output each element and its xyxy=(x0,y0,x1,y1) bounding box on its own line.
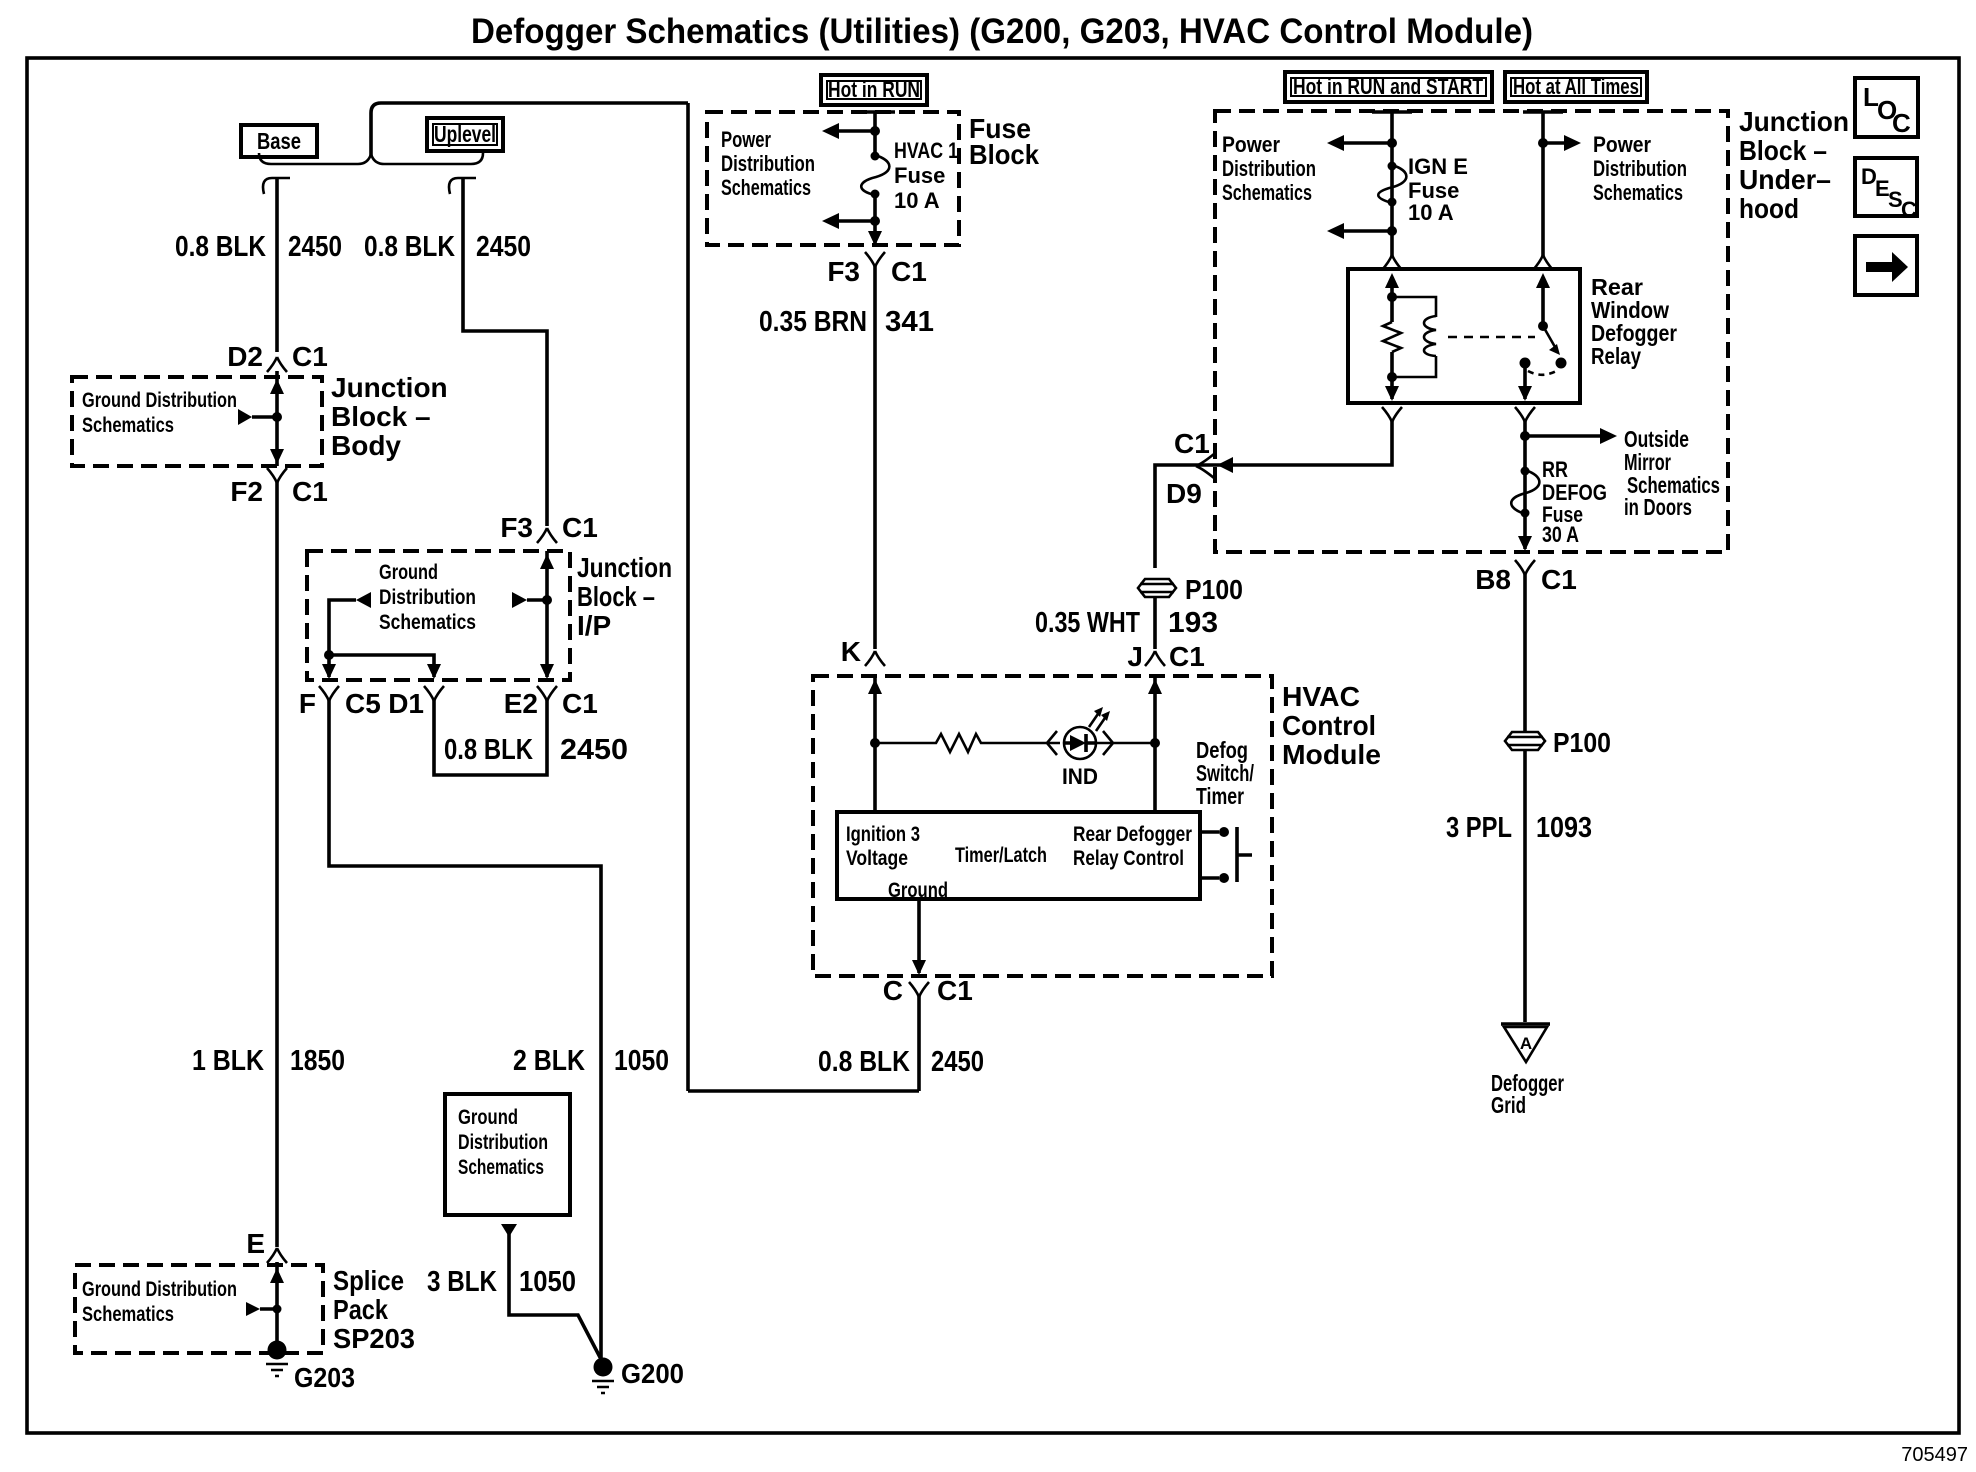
svg-text:Ground: Ground xyxy=(888,879,948,902)
connector F2 C1 xyxy=(230,468,327,507)
svg-text:Body: Body xyxy=(331,430,401,461)
Hot in RUN and START flag box xyxy=(1285,72,1492,102)
arrow down (fuse block exit) xyxy=(868,231,882,246)
svg-text:C5: C5 xyxy=(345,688,381,719)
svg-text:F3: F3 xyxy=(827,256,860,287)
connector E2 C1 xyxy=(504,686,598,719)
wire K into module xyxy=(873,676,877,812)
svg-text:Distribution: Distribution xyxy=(1593,156,1687,181)
svg-text:Grid: Grid xyxy=(1491,1092,1526,1118)
svg-text:IND: IND xyxy=(1062,764,1098,789)
relay switch pivot xyxy=(1538,321,1548,331)
svg-text:10 A: 10 A xyxy=(1408,200,1454,225)
svg-text:193: 193 xyxy=(1168,607,1218,639)
relay coil branch xyxy=(1392,297,1436,317)
svg-text:Ground Distribution: Ground Distribution xyxy=(82,1278,237,1301)
Base lead hook xyxy=(263,178,290,194)
Junction Block - Body dashed box xyxy=(72,377,322,466)
wire LED to J branch xyxy=(1096,742,1155,745)
wire ground exit xyxy=(917,899,921,973)
svg-text:Junction: Junction xyxy=(577,552,672,583)
svg-text:J: J xyxy=(1127,641,1143,672)
svg-text:Timer/Latch: Timer/Latch xyxy=(955,844,1047,867)
connector F C5 xyxy=(299,686,381,719)
svg-text:K: K xyxy=(841,636,861,667)
svg-text:Power: Power xyxy=(1593,132,1651,157)
wire top horizontal run to right xyxy=(381,101,688,105)
arrow left (lower power dist) xyxy=(1327,223,1344,239)
svg-text:1850: 1850 xyxy=(290,1045,345,1077)
Fuse Block dashed box xyxy=(707,112,959,245)
svg-text:P100: P100 xyxy=(1553,727,1611,758)
connector C C1 xyxy=(883,975,973,1006)
relay contact left xyxy=(1520,358,1531,369)
svg-text:in Doors: in Doors xyxy=(1624,494,1692,520)
svg-text:Splice: Splice xyxy=(333,1265,404,1296)
node relay coil top xyxy=(1387,292,1397,302)
Junction Block - Underhood dashed box xyxy=(1215,111,1728,552)
svg-text:D1: D1 xyxy=(388,688,424,719)
svg-text:Relay Control: Relay Control xyxy=(1073,847,1184,870)
svg-text:F2: F2 xyxy=(230,476,263,507)
arrow right (outside mirror) xyxy=(1525,434,1600,438)
svg-text:D2: D2 xyxy=(227,341,263,372)
Hot in RUN flag box xyxy=(821,75,927,105)
svg-text:0.35 BRN: 0.35 BRN xyxy=(759,306,867,338)
svg-text:C1: C1 xyxy=(891,256,927,287)
svg-text:D9: D9 xyxy=(1166,478,1202,509)
wire J to module xyxy=(1153,597,1157,649)
Base connector box xyxy=(241,125,317,157)
svg-text:0.8 BLK: 0.8 BLK xyxy=(175,231,266,263)
svg-text:1050: 1050 xyxy=(519,1266,576,1298)
svg-text:Ignition 3: Ignition 3 xyxy=(846,823,920,846)
svg-text:A: A xyxy=(1520,1034,1532,1053)
arrow right (power dist right) xyxy=(1543,141,1564,145)
node fuse top xyxy=(870,126,880,136)
svg-text:Ground: Ground xyxy=(379,561,438,584)
wire 1 BLK 1850 long vertical xyxy=(275,482,279,1247)
svg-text:B8: B8 xyxy=(1475,564,1511,595)
connector B8 C1 xyxy=(1475,560,1577,595)
svg-text:1 BLK: 1 BLK xyxy=(192,1045,264,1077)
svg-text:1093: 1093 xyxy=(1536,812,1592,844)
svg-text:0.8 BLK: 0.8 BLK xyxy=(364,231,455,263)
svg-text:C1: C1 xyxy=(1541,564,1577,595)
wire I/P jumper to D1 xyxy=(329,655,434,677)
node outside mirror branch xyxy=(1520,431,1530,441)
svg-text:C: C xyxy=(883,975,903,1006)
svg-text:Ground Distribution: Ground Distribution xyxy=(82,389,237,412)
arrow down from ground dist box xyxy=(501,1224,517,1237)
defogger grid terminal A xyxy=(1501,1024,1550,1062)
svg-text:Rear Defogger: Rear Defogger xyxy=(1073,823,1192,846)
connector F3 C1 (fuse block) xyxy=(827,252,926,287)
Junction Block - I/P dashed box xyxy=(307,551,570,680)
node relay coil bottom xyxy=(1387,372,1397,382)
connector J C1 xyxy=(1127,641,1204,672)
fuse HVAC 1 10A xyxy=(861,138,958,213)
node body junction xyxy=(272,412,282,422)
svg-text:Schematics: Schematics xyxy=(1593,180,1683,205)
Defog Switch/Timer inner box xyxy=(837,812,1200,899)
svg-text:Relay: Relay xyxy=(1591,343,1641,369)
svg-text:Schematics: Schematics xyxy=(82,414,174,437)
svg-text:Timer: Timer xyxy=(1196,783,1244,809)
ground G203 xyxy=(266,1341,355,1394)
svg-text:C: C xyxy=(1901,197,1917,222)
svg-text:Block: Block xyxy=(969,139,1039,170)
arrow (I/P right stub) xyxy=(512,592,527,608)
svg-text:C: C xyxy=(1892,108,1911,138)
wire 3 BLK 1050 to G200 xyxy=(509,1232,603,1363)
wire top bar (IGN E feed) xyxy=(1372,110,1412,114)
wire 0.35 BRN 341 xyxy=(873,266,877,649)
svg-text:Module: Module xyxy=(1282,739,1381,770)
relay coil xyxy=(1424,316,1436,356)
svg-text:0.8 BLK: 0.8 BLK xyxy=(818,1046,910,1078)
wire relay output to defog fuse xyxy=(1523,421,1527,549)
svg-text:Schematics: Schematics xyxy=(379,611,476,634)
node I/P right junction xyxy=(542,595,552,605)
ground G200 xyxy=(592,1358,684,1394)
svg-text:HVAC 1: HVAC 1 xyxy=(894,138,958,163)
arrow (I/P left stub) xyxy=(356,592,371,608)
wire relay output xyxy=(1523,363,1527,399)
arrow up (J entry) xyxy=(1148,679,1162,694)
switch stub lower xyxy=(1200,876,1219,880)
svg-text:E: E xyxy=(246,1228,265,1259)
arrow down (ground exit) xyxy=(912,960,926,975)
svg-text:C1: C1 xyxy=(292,476,328,507)
svg-text:E2: E2 xyxy=(504,688,538,719)
HVAC Control Module dashed box xyxy=(813,676,1272,976)
svg-text:Junction: Junction xyxy=(331,372,448,403)
wire relay control run to C1 D9 xyxy=(1155,421,1392,568)
svg-text:C1: C1 xyxy=(1174,428,1210,459)
svg-text:2450: 2450 xyxy=(288,231,342,263)
relay coil-side entry arrow xyxy=(1385,273,1399,288)
svg-text:I/P: I/P xyxy=(577,610,611,641)
svg-text:Junction: Junction xyxy=(1739,106,1849,137)
wire Hot at All Times feed bar xyxy=(1523,110,1563,114)
wire IGN E feed xyxy=(1390,112,1394,256)
svg-text:Distribution: Distribution xyxy=(458,1131,548,1154)
arrow up (body box top) xyxy=(270,379,284,394)
wire P100 to defogger grid xyxy=(1523,750,1527,1022)
Uplevel lead hook xyxy=(449,178,476,194)
svg-text:2450: 2450 xyxy=(931,1046,984,1078)
svg-text:Power: Power xyxy=(721,127,771,152)
svg-text:2450: 2450 xyxy=(560,734,628,766)
svg-text:C1: C1 xyxy=(562,688,598,719)
svg-text:0.8 BLK: 0.8 BLK xyxy=(444,734,533,766)
wire bottom horizontal run to C C1 xyxy=(688,1089,919,1093)
arrow left (upper distribution) xyxy=(822,123,839,139)
node fuse bottom xyxy=(870,216,880,226)
svg-text:Voltage: Voltage xyxy=(846,847,908,870)
svg-text:1050: 1050 xyxy=(614,1045,669,1077)
wire J into module xyxy=(1153,676,1157,812)
svg-text:Fuse: Fuse xyxy=(894,163,945,188)
svg-text:G200: G200 xyxy=(621,1358,684,1389)
svg-text:IGN E: IGN E xyxy=(1408,154,1468,179)
next-arrow button box xyxy=(1855,236,1917,295)
wire into Junction Block Body xyxy=(275,371,279,466)
wire right vertical run (0.8 BLK 2450 return) xyxy=(686,103,690,1091)
svg-text:10 A: 10 A xyxy=(894,188,940,213)
arrow down (relay control exit) xyxy=(1385,386,1399,401)
Ground Distribution Schematics solid box (middle) xyxy=(445,1094,570,1215)
svg-text:Schematics: Schematics xyxy=(1222,180,1312,205)
relay resistor (vertical) xyxy=(1383,322,1401,352)
node J branch xyxy=(1150,738,1160,748)
arrow up (splice top) xyxy=(270,1268,284,1283)
svg-text:0.35 WHT: 0.35 WHT xyxy=(1035,607,1140,639)
LED indicator IND xyxy=(1047,707,1113,789)
node ignition branch xyxy=(870,738,880,748)
relay contact dashed arc xyxy=(1528,370,1558,375)
wire F C5 down, jog right (2 BLK 1050) xyxy=(329,700,601,1366)
svg-text:C1: C1 xyxy=(937,975,973,1006)
svg-text:C1: C1 xyxy=(292,341,328,372)
wire top bar (fuse block feed) xyxy=(855,110,895,114)
arrow left (upper power dist) xyxy=(1327,135,1344,151)
arrow left (lower distribution) xyxy=(822,213,839,229)
inline connector P100 (PPL) xyxy=(1505,727,1611,758)
arrow down (exit D1) xyxy=(427,664,441,679)
svg-text:Block –: Block – xyxy=(1739,135,1827,166)
svg-text:Power: Power xyxy=(1222,132,1280,157)
DESC button box xyxy=(1855,158,1917,222)
resistor (indicator dropping) xyxy=(875,734,1060,752)
svg-text:Uplevel: Uplevel xyxy=(434,121,496,147)
connector fork (relay coil feed) xyxy=(1382,255,1402,270)
svg-text:RR: RR xyxy=(1542,457,1568,482)
svg-text:341: 341 xyxy=(885,306,934,338)
node I/P left junction xyxy=(324,650,334,660)
Splice Pack SP203 dashed box xyxy=(75,1265,323,1353)
svg-text:Block –: Block – xyxy=(577,581,655,612)
relay switch entry arrow xyxy=(1536,273,1550,288)
wire Hot at All Times feed xyxy=(1541,112,1545,256)
connector K xyxy=(841,636,885,667)
svg-text:Block –: Block – xyxy=(331,401,431,432)
svg-text:C1: C1 xyxy=(1169,641,1205,672)
svg-text:SP203: SP203 xyxy=(333,1323,415,1354)
wire B8 to P100 xyxy=(1523,574,1527,731)
svg-text:2 BLK: 2 BLK xyxy=(513,1045,585,1077)
arrow into body wire xyxy=(238,409,252,425)
svg-text:HVAC: HVAC xyxy=(1282,681,1360,712)
svg-text:hood: hood xyxy=(1739,193,1799,224)
fuse IGN E 10A xyxy=(1378,154,1468,225)
svg-text:3 PPL: 3 PPL xyxy=(1446,812,1512,844)
svg-text:2450: 2450 xyxy=(476,231,531,263)
arrow up (K entry) xyxy=(868,679,882,694)
svg-text:P100: P100 xyxy=(1185,574,1243,605)
svg-text:Schematics: Schematics xyxy=(458,1156,544,1179)
svg-text:Hot at All Times: Hot at All Times xyxy=(1513,74,1639,99)
Hot at All Times flag box xyxy=(1505,72,1647,102)
svg-text:Schematics: Schematics xyxy=(82,1303,174,1326)
connector fork (relay switch feed) xyxy=(1533,255,1553,270)
svg-text:Distribution: Distribution xyxy=(721,151,815,176)
relay contact right xyxy=(1556,358,1567,369)
label box 0.8 BLK 2450 (E2 lead) xyxy=(434,700,628,775)
wire F3 through I/P xyxy=(545,551,549,677)
wire Base lead down xyxy=(275,177,279,352)
arrow down (underhood exit) xyxy=(1518,536,1532,551)
svg-text:3 BLK: 3 BLK xyxy=(427,1266,497,1298)
connector D2 C1 xyxy=(227,341,328,372)
svg-text:Defogger Schematics (Utilities: Defogger Schematics (Utilities) (G200, G… xyxy=(471,12,1533,51)
connector E (splice pack) xyxy=(246,1228,287,1263)
wire through splice pack xyxy=(275,1262,279,1352)
svg-text:Ground: Ground xyxy=(458,1106,518,1129)
wire Uplevel lead down and jog right xyxy=(463,177,547,526)
Rear Window Defogger Relay box xyxy=(1348,269,1580,403)
node IGN top xyxy=(1387,138,1397,148)
brace joining Base and Uplevel leads xyxy=(259,153,483,164)
node splice junction xyxy=(273,1305,282,1314)
inline connector P100 (WHT) xyxy=(1138,574,1243,605)
svg-text:Hot in RUN and START: Hot in RUN and START xyxy=(1293,74,1483,99)
wire up to C C1 connector xyxy=(917,996,921,1091)
connector fork below relay right xyxy=(1515,407,1535,422)
svg-text:Distribution: Distribution xyxy=(379,586,476,609)
svg-text:Hot in RUN: Hot in RUN xyxy=(828,77,920,102)
wire fuse output xyxy=(873,194,877,243)
svg-text:F: F xyxy=(299,688,316,719)
Uplevel connector box xyxy=(427,118,503,151)
fuse RR DEFOG 30A xyxy=(1511,457,1607,547)
svg-text:Schematics: Schematics xyxy=(721,175,811,200)
node IGN bottom xyxy=(1387,226,1397,236)
svg-text:Under–: Under– xyxy=(1739,164,1831,195)
arrow down (relay output exit) xyxy=(1518,386,1532,401)
switch bar and stem xyxy=(1237,827,1252,882)
svg-text:G203: G203 xyxy=(294,1362,355,1393)
wire fuse feed xyxy=(873,112,877,155)
svg-text:Control: Control xyxy=(1282,710,1376,741)
connector F3 C1 (junction block I/P) xyxy=(500,512,597,543)
svg-text:Pack: Pack xyxy=(333,1294,388,1325)
node hot feed xyxy=(1538,138,1548,148)
switch stub upper xyxy=(1200,830,1219,834)
arrow up (I/P top) xyxy=(540,554,554,569)
connector C1 D9 (arrow and fork) xyxy=(1217,457,1233,473)
connector fork below relay left xyxy=(1382,407,1402,422)
LOC button box xyxy=(1855,78,1918,138)
svg-text:C1: C1 xyxy=(562,512,598,543)
svg-text:30 A: 30 A xyxy=(1542,522,1579,547)
relay switch arm xyxy=(1543,326,1555,347)
arrow down (I/P bottom E2) xyxy=(540,664,554,679)
connector D1 fork xyxy=(424,686,444,701)
svg-text:Base: Base xyxy=(257,128,301,154)
wire from brace up to top run xyxy=(371,103,381,157)
wire I/P left stub xyxy=(329,600,356,677)
svg-text:705497: 705497 xyxy=(1901,1444,1968,1466)
svg-text:Distribution: Distribution xyxy=(1222,156,1316,181)
arrow down (body box bottom) xyxy=(270,449,284,464)
relay actuation dashed link xyxy=(1448,336,1535,339)
arrow down (exit F) xyxy=(322,664,336,679)
svg-text:F3: F3 xyxy=(500,512,533,543)
arrow into splice wire xyxy=(246,1302,260,1316)
